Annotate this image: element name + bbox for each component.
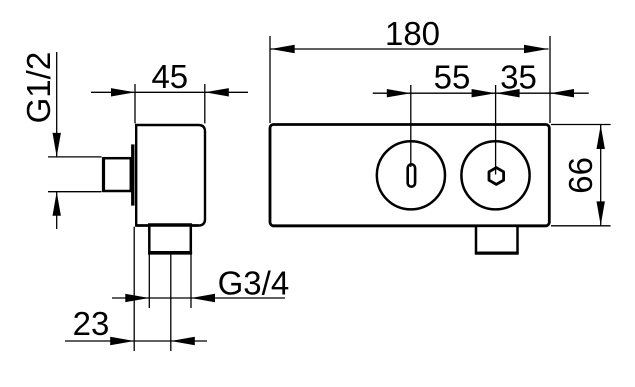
dim 45: right arrowhead <box>205 88 229 96</box>
left view: wall flange plate <box>131 144 134 205</box>
dim 180: dimension line <box>270 48 549 50</box>
dim 180: extension line left <box>269 36 271 123</box>
svg-text:45: 45 <box>151 58 188 95</box>
left view: body over outlet joint line <box>136 224 198 226</box>
dim 45: left arrowhead <box>111 88 135 96</box>
dim 66: down arrowhead <box>597 201 605 225</box>
front view: slot in left handle <box>408 164 415 186</box>
dim G3/4: extension line right (outlet right edge) <box>190 254 192 309</box>
dim G1/2: down arrowhead <box>53 133 61 157</box>
front view: tab bold bottom face <box>475 252 519 255</box>
dim 23: dimension line <box>65 340 207 342</box>
front view: valve body <box>270 125 549 226</box>
left view: outlet bold bottom face <box>148 251 192 255</box>
dim G1/2: vertical leader line lower segment <box>56 192 58 229</box>
dim 55: centre extension line of left circle <box>410 85 412 167</box>
front view: hex socket in right handle <box>489 168 504 185</box>
dim 66: up arrowhead <box>597 125 605 149</box>
front view: right handle circle <box>461 141 529 209</box>
left view: bottom outlet G3/4 <box>149 225 191 253</box>
dim G3/4: extension line left (outlet left edge) <box>148 254 150 309</box>
dim G3/4: dimension line <box>112 297 285 299</box>
dim 55: outside left arrowhead <box>387 89 411 97</box>
dim 66: extension line bottom <box>551 225 611 227</box>
dim 23: left arrowhead <box>110 337 134 345</box>
svg-text:35: 35 <box>500 59 537 96</box>
dim 35: outside right arrowhead <box>550 89 574 97</box>
dim G1/2: extension line bottom <box>48 191 102 193</box>
left view: inlet nipple G1/2 <box>104 158 131 191</box>
left view: nipple bold left face <box>102 157 105 192</box>
dim 55/35: centre extension line of right circle <box>495 85 497 175</box>
dim 45: extension line left <box>134 84 136 123</box>
front view: bottom tab outlet <box>476 226 518 253</box>
dim G1/2: vertical leader line upper segment <box>56 52 58 157</box>
dim 66: extension line top <box>551 124 611 126</box>
front view: body bottom joint line over tab <box>272 225 547 228</box>
dim 35: inside left arrowhead <box>496 89 520 97</box>
dim 45: dimension line <box>91 91 248 93</box>
svg-text:66: 66 <box>562 157 599 194</box>
dim 23: right arrowhead <box>171 337 195 345</box>
front view: left handle circle <box>377 141 445 209</box>
svg-text:G3/4: G3/4 <box>218 265 290 302</box>
svg-text:G1/2: G1/2 <box>20 52 57 124</box>
dim G3/4: right arrowhead <box>191 294 215 302</box>
dim 180: left arrowhead <box>271 45 295 53</box>
outlet centre line <box>170 254 172 352</box>
dim 55: inside right arrowhead <box>472 89 496 97</box>
dim 66: dimension line <box>600 125 602 226</box>
body left edge extension line down <box>133 227 135 351</box>
svg-text:180: 180 <box>385 15 440 52</box>
dim 55/35: dimension line <box>373 92 589 94</box>
svg-text:55: 55 <box>434 59 471 96</box>
dim G1/2: up arrowhead <box>53 192 61 216</box>
svg-text:23: 23 <box>73 305 110 342</box>
dim 180: extension line right (shared with dim 35) <box>549 36 551 123</box>
dim G1/2: extension line top <box>48 156 102 158</box>
dim G3/4: left arrowhead <box>125 294 149 302</box>
dim 45: extension line right <box>204 84 206 123</box>
left view: valve body <box>136 125 205 226</box>
dim 180: right arrowhead <box>524 45 548 53</box>
